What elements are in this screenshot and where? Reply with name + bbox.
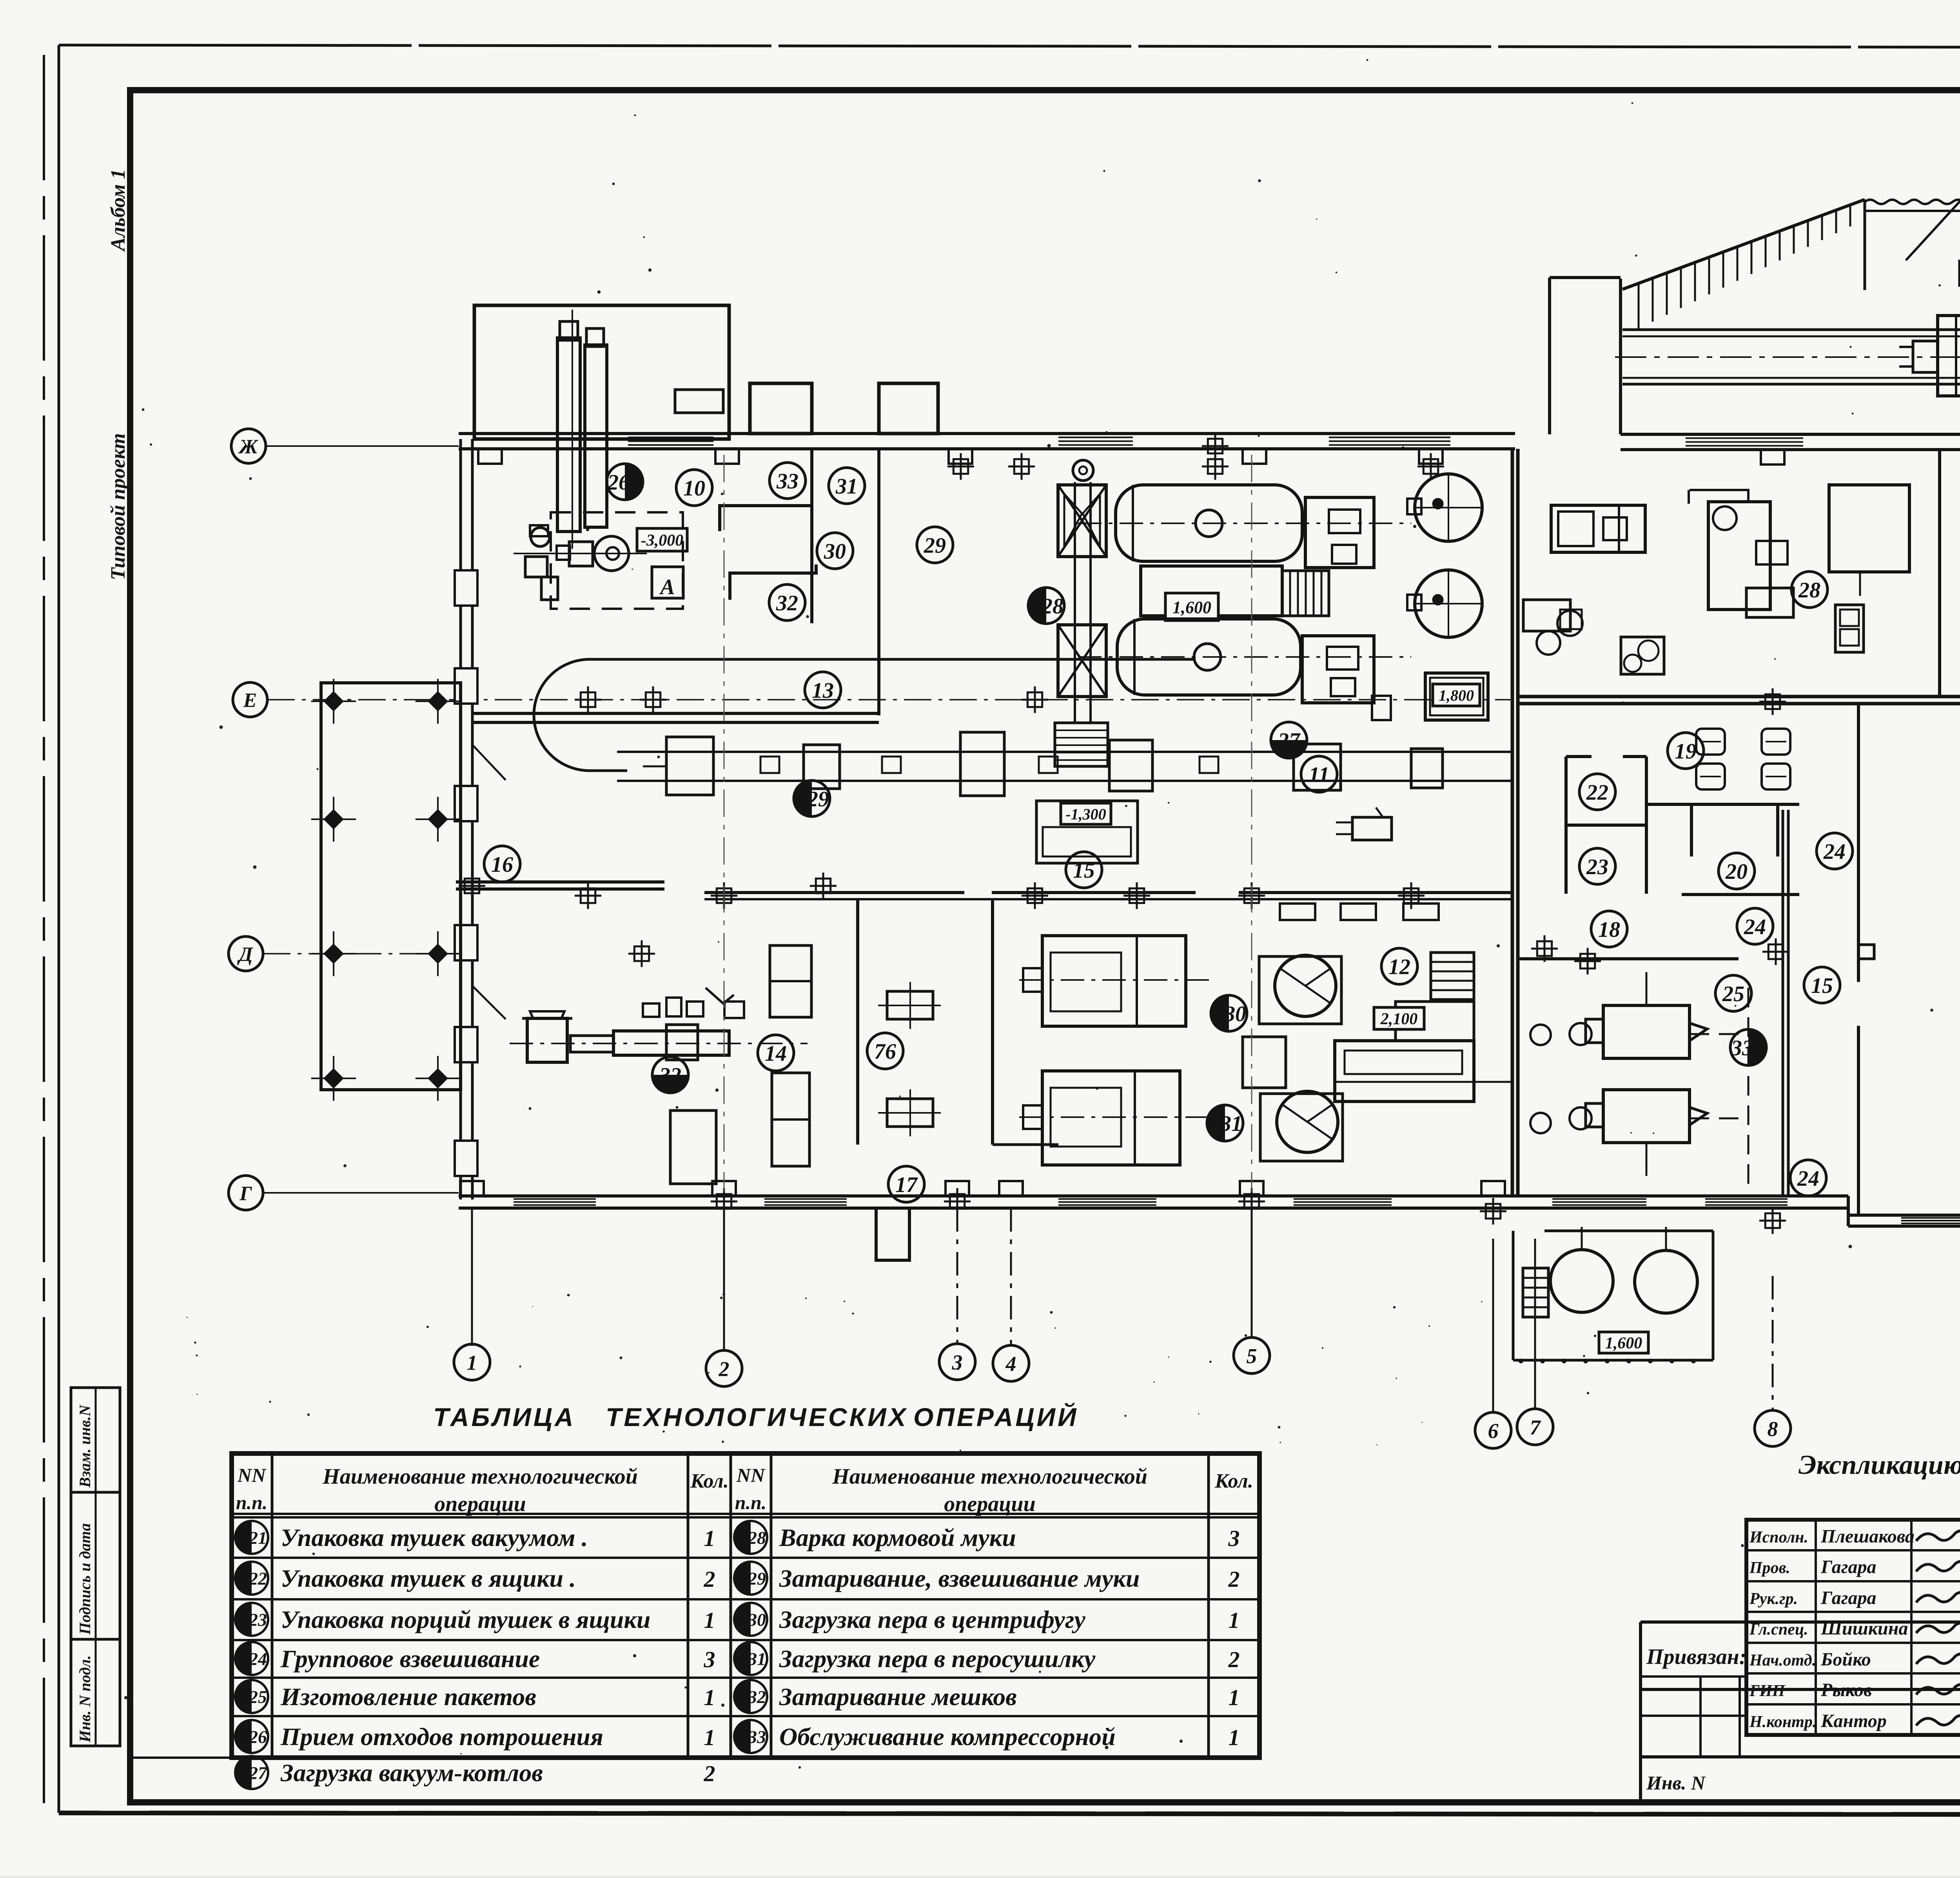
svg-text:Прием отходов потрошения: Прием отходов потрошения <box>280 1723 603 1751</box>
svg-text:16: 16 <box>491 853 513 877</box>
svg-text:14: 14 <box>765 1042 787 1066</box>
svg-text:Обслуживание компрессорной: Обслуживание компрессорной <box>779 1723 1116 1751</box>
svg-text:12: 12 <box>1388 955 1410 979</box>
small motors on line <box>760 757 779 773</box>
dashed equipment zone <box>551 512 683 609</box>
hopper rail car <box>1899 316 1960 396</box>
operations table grid <box>232 1453 1259 1758</box>
room/operation marker 22 <box>1579 774 1615 810</box>
svg-text:26: 26 <box>607 470 630 495</box>
svg-text:Упаковка тушек вакуумом .: Упаковка тушек вакуумом . <box>281 1524 588 1551</box>
svg-text:29: 29 <box>807 787 829 811</box>
svg-text:25: 25 <box>1722 982 1744 1006</box>
svg-text:1: 1 <box>704 1685 715 1710</box>
svg-text:Инв. N: Инв. N <box>1646 1772 1706 1794</box>
door notch on wall x4741 <box>1858 945 1874 959</box>
room/operation marker 30 <box>734 1603 767 1636</box>
svg-text:Затаривание, взвешивание муки: Затаривание, взвешивание муки <box>779 1564 1140 1592</box>
svg-text:33: 33 <box>748 1727 766 1747</box>
giblet chiller <box>1335 1002 1513 1101</box>
svg-text:3: 3 <box>1228 1526 1240 1551</box>
room/operation marker 18 <box>1591 911 1627 947</box>
svg-text:26: 26 <box>249 1727 267 1747</box>
svg-text:15: 15 <box>1073 858 1095 883</box>
axis line E <box>267 699 1513 700</box>
svg-text:Загрузка вакуум-котлов: Загрузка вакуум-котлов <box>280 1759 543 1787</box>
bottom wall of top-left rooms <box>472 712 879 715</box>
machine with label 1.800 <box>1425 673 1488 720</box>
svg-text:2: 2 <box>1228 1647 1240 1672</box>
room/operation marker 24 <box>235 1642 268 1675</box>
room/operation marker 8 <box>1755 1410 1791 1446</box>
weigher units room 25 <box>1570 972 1707 1058</box>
svg-text:Изготовление пакетов: Изготовление пакетов <box>280 1683 536 1711</box>
svg-text:Кол.: Кол. <box>690 1470 729 1492</box>
room/operation marker 30 <box>817 533 853 569</box>
svg-text:30: 30 <box>824 539 846 564</box>
svg-text:Е: Е <box>243 690 257 712</box>
central dividing wall (axis between halls) <box>1511 449 1514 1196</box>
svg-text:1,800: 1,800 <box>1439 686 1474 704</box>
room/operation marker 29 <box>734 1562 767 1595</box>
axis line G <box>263 1192 459 1194</box>
title block frame <box>1746 1520 1960 1735</box>
svg-text:Инв. N подл.: Инв. N подл. <box>76 1655 94 1743</box>
room/operation marker 33 <box>734 1720 767 1753</box>
level label 0,400 <box>1960 261 1960 285</box>
machine cluster room 10 <box>514 525 647 600</box>
svg-text:Н.контр.: Н.контр. <box>1749 1713 1817 1731</box>
svg-text:Подпись и дата: Подпись и дата <box>76 1523 94 1635</box>
svg-text:1,600: 1,600 <box>1172 598 1211 617</box>
room/operation marker 31 <box>829 468 865 504</box>
svg-text:28: 28 <box>748 1528 766 1548</box>
svg-text:1: 1 <box>467 1351 477 1374</box>
feather trough <box>1036 801 1138 863</box>
ladder room 12 <box>1431 953 1474 1000</box>
svg-text:NN: NN <box>736 1464 766 1486</box>
svg-text:22: 22 <box>1586 780 1608 805</box>
room 24/25 box <box>1518 957 1739 960</box>
table room 14 <box>670 1110 716 1184</box>
room/operation marker 19 <box>1668 733 1704 769</box>
level label -3,000 <box>637 528 687 551</box>
compressor ladder <box>1523 1268 1548 1317</box>
level label 1,600 <box>1599 1332 1648 1353</box>
room/operation marker 10 <box>676 470 712 506</box>
south wall step (right section, lower) <box>1847 1196 1850 1226</box>
room/operation marker 11 <box>1301 756 1337 792</box>
svg-text:1,600: 1,600 <box>1605 1334 1642 1352</box>
svg-text:Нач.отд.: Нач.отд. <box>1749 1651 1816 1669</box>
machines room 19 <box>1523 600 1583 655</box>
small machine room 19b <box>1621 637 1664 674</box>
svg-text:Альбом 1: Альбом 1 <box>107 169 129 252</box>
chiller drum 1 <box>1259 955 1341 1024</box>
svg-text:Пров.: Пров. <box>1749 1559 1790 1577</box>
wall at E level right section <box>1518 695 1960 699</box>
svg-text:1: 1 <box>704 1608 715 1633</box>
svg-text:13: 13 <box>812 679 834 703</box>
svg-text:Ж: Ж <box>238 436 258 458</box>
room/operation marker Ж <box>231 429 266 463</box>
axis line D <box>263 953 459 954</box>
svg-text:11: 11 <box>1309 763 1330 787</box>
tables room 12 <box>1280 904 1315 920</box>
svg-text:3: 3 <box>952 1350 963 1374</box>
svg-text:8: 8 <box>1768 1417 1778 1441</box>
svg-text:операции: операции <box>944 1492 1035 1516</box>
svg-text:28: 28 <box>1798 578 1820 602</box>
enclosure rivets <box>1519 1359 1523 1363</box>
level label 1,600 <box>1165 593 1218 621</box>
svg-text:24: 24 <box>1744 915 1766 939</box>
svg-text:-1,300: -1,300 <box>1065 805 1106 823</box>
room/operation marker 15 <box>1066 852 1102 888</box>
svg-text:25: 25 <box>249 1687 267 1707</box>
svg-text:23: 23 <box>1586 855 1608 879</box>
svg-text:22: 22 <box>249 1569 267 1589</box>
svg-text:Наименование технологической: Наименование технологической <box>832 1464 1147 1489</box>
room/operation marker 25 <box>235 1680 268 1713</box>
room/operation marker 2 <box>706 1350 742 1386</box>
svg-text:5: 5 <box>1247 1344 1257 1368</box>
svg-text:29: 29 <box>748 1569 766 1589</box>
room/operation marker 20 <box>1719 853 1755 889</box>
room/operation marker 24 <box>1737 908 1773 944</box>
slaughter-defeathering line <box>617 732 1512 796</box>
room/operation marker 16 <box>484 846 520 882</box>
leader line to platform <box>1906 158 1960 260</box>
svg-text:Типовой проект: Типовой проект <box>107 433 129 580</box>
room/operation marker 76 <box>867 1033 903 1069</box>
svg-text:32: 32 <box>776 591 798 615</box>
washer drum 2 <box>1019 1071 1215 1165</box>
svg-text:1: 1 <box>1229 1725 1240 1750</box>
cooker middle tank <box>1141 566 1282 616</box>
svg-text:31: 31 <box>748 1649 766 1669</box>
room/operation marker 28 <box>734 1521 767 1554</box>
svg-text:20: 20 <box>1725 860 1748 884</box>
svg-text:Г: Г <box>239 1183 252 1205</box>
svg-text:2: 2 <box>704 1566 715 1592</box>
room/operation marker 30 <box>1211 995 1247 1031</box>
room/operation marker 25 <box>1715 975 1751 1011</box>
L partition room 32 <box>730 564 816 600</box>
svg-text:23: 23 <box>249 1610 267 1630</box>
room/operation marker 24 <box>1817 833 1853 869</box>
wall Zh right building <box>1621 433 1960 436</box>
annex column markers <box>323 691 344 711</box>
room/operation marker 22 <box>235 1562 268 1595</box>
scalder tank <box>522 1011 572 1062</box>
room/operation marker Г <box>229 1176 263 1210</box>
svg-text:Загрузка пера в центрифугу: Загрузка пера в центрифугу <box>779 1606 1085 1633</box>
room/operation marker 29 <box>917 527 953 563</box>
room/operation marker 17 <box>888 1166 924 1202</box>
feather dryer towers <box>557 310 607 549</box>
rail track lines <box>1622 328 1960 331</box>
room/operation marker 33 <box>769 463 806 499</box>
small pump near tanks <box>1372 696 1391 720</box>
rooms 22/23 walls <box>1564 757 1568 894</box>
svg-text:27: 27 <box>1278 729 1301 753</box>
svg-text:Упаковка тушек в ящики .: Упаковка тушек в ящики . <box>281 1564 576 1592</box>
washer drum 1 <box>1019 936 1215 1026</box>
svg-text:NN: NN <box>237 1464 267 1486</box>
svg-text:ОПЕРАЦИЙ: ОПЕРАЦИЙ <box>913 1402 1078 1432</box>
svg-text:33: 33 <box>776 469 799 494</box>
room/operation marker 32 <box>734 1680 767 1713</box>
overhead conveyor loop <box>534 659 1196 771</box>
svg-text:Исполн.: Исполн. <box>1749 1528 1808 1546</box>
svg-text:29: 29 <box>924 533 946 558</box>
svg-text:21: 21 <box>249 1528 267 1548</box>
level label -1,300 <box>1061 803 1111 824</box>
svg-text:30: 30 <box>748 1610 766 1630</box>
svg-text:Варка кормовой муки: Варка кормовой муки <box>779 1524 1016 1551</box>
svg-text:76: 76 <box>874 1040 896 1064</box>
small circles room 25 <box>1530 1025 1551 1045</box>
L partition room 33 <box>720 506 812 531</box>
equipment pair room 14 lower <box>772 1073 809 1166</box>
svg-text:24: 24 <box>249 1649 267 1669</box>
top-left rooms partition vertical 2 <box>877 449 880 715</box>
room/operation marker Д <box>229 936 263 971</box>
svg-text:Групповое взвешивание: Групповое взвешивание <box>280 1645 540 1673</box>
interior wall room 28/26 <box>1938 450 1941 697</box>
partition wall x2188 <box>856 899 859 1145</box>
blood tank upper <box>1407 474 1482 541</box>
svg-text:2,100: 2,100 <box>1380 1010 1418 1028</box>
level label 1,800 <box>1433 684 1480 706</box>
room/operation marker 14 <box>758 1035 794 1071</box>
machine top room 28 area <box>1551 505 1645 552</box>
room/operation marker 15 <box>1804 967 1840 1003</box>
equipment pair room 14 upper <box>770 945 811 1017</box>
corridor to unloading platform <box>1548 278 1551 434</box>
svg-text:3: 3 <box>704 1647 715 1672</box>
compressor station enclosure <box>1513 1231 1713 1360</box>
svg-text:4: 4 <box>1005 1352 1016 1375</box>
svg-text:19: 19 <box>1675 739 1697 764</box>
room/operation marker 23 <box>235 1603 268 1636</box>
svg-text:Плешакова: Плешакова <box>1820 1526 1915 1547</box>
svg-text:-3,000: -3,000 <box>641 532 684 550</box>
svg-text:1: 1 <box>1229 1608 1240 1633</box>
left stub of title block <box>1641 1675 1746 1678</box>
svg-text:Гагара: Гагара <box>1820 1557 1877 1577</box>
room 20 walls <box>1646 803 1799 806</box>
svg-text:28: 28 <box>1041 594 1063 619</box>
small device room 28 <box>1835 605 1864 652</box>
room/operation marker 33 <box>1730 1029 1766 1065</box>
svg-text:п.п.: п.п. <box>735 1492 767 1513</box>
level label 2,100 <box>1374 1007 1424 1029</box>
interior wall above rooms 14-16 (corridor) <box>456 880 664 884</box>
svg-text:п.п.: п.п. <box>236 1492 268 1513</box>
cooker stairs <box>1282 571 1329 616</box>
section mark A box <box>652 567 683 598</box>
svg-text:31: 31 <box>1220 1112 1242 1136</box>
room/operation marker 32 <box>769 584 805 621</box>
room/operation marker 4 <box>993 1345 1029 1381</box>
bottom axis leaders and circles <box>471 1208 473 1344</box>
square between chillers <box>1243 1037 1286 1088</box>
svg-text:10: 10 <box>683 476 705 501</box>
vent room 2 above Zh <box>879 383 938 434</box>
top-left rooms partition vertical 1 <box>810 449 813 623</box>
svg-text:Рук.гр.: Рук.гр. <box>1749 1590 1798 1608</box>
room/operation marker 26 <box>607 464 643 500</box>
room/operation marker 7 <box>1517 1409 1553 1445</box>
blood tank lower <box>1407 570 1482 637</box>
svg-text:30: 30 <box>1224 1002 1246 1026</box>
svg-text:6: 6 <box>1488 1419 1499 1443</box>
svg-text:2: 2 <box>1228 1566 1240 1592</box>
svg-text:Затаривание мешков: Затаривание мешков <box>779 1683 1017 1711</box>
column axis verticals <box>724 455 725 1192</box>
small box inside top-left room <box>675 390 723 413</box>
room/operation marker 23 <box>1579 848 1615 884</box>
door opening west wall <box>472 745 506 780</box>
svg-text:31: 31 <box>835 474 858 499</box>
room/operation marker 13 <box>805 672 841 708</box>
corridor wall x4741 <box>1857 704 1860 982</box>
svg-text:2: 2 <box>719 1357 730 1381</box>
svg-text:Упаковка порций тушек в ящики: Упаковка порций тушек в ящики <box>281 1606 650 1633</box>
room above axis Zh (top-left block) <box>474 305 729 439</box>
vacuum cooker 1 <box>1078 485 1411 568</box>
svg-text:24: 24 <box>1797 1167 1819 1191</box>
svg-text:32: 32 <box>659 1063 681 1088</box>
west wall of main building <box>459 439 462 1199</box>
column markers <box>575 686 601 713</box>
room/operation marker 6 <box>1475 1412 1511 1448</box>
room/operation marker 27 <box>235 1756 268 1789</box>
svg-text:18: 18 <box>1598 918 1620 942</box>
vacuum cooker 2 <box>1078 619 1411 703</box>
svg-text:Наименование технологической: Наименование технологической <box>322 1464 638 1489</box>
svg-text:Гагара: Гагара <box>1820 1588 1877 1608</box>
pump pair A room 19 <box>1696 729 1725 755</box>
feather centrifuge lower <box>1058 625 1106 697</box>
room/operation marker 29 <box>794 780 830 817</box>
svg-text:Кол.: Кол. <box>1214 1470 1253 1492</box>
svg-text:27: 27 <box>249 1763 268 1783</box>
room/operation marker 21 <box>235 1521 268 1554</box>
room/operation marker 28 <box>1791 572 1828 608</box>
svg-text:1: 1 <box>704 1526 715 1551</box>
svg-text:1: 1 <box>704 1725 715 1750</box>
dashed piping room 25 <box>1748 988 1749 1192</box>
corrugated platform edge <box>1865 200 1960 204</box>
receiver tank 1 <box>1550 1250 1613 1312</box>
feather press hatch block <box>1055 723 1108 766</box>
partition wall x2532 <box>991 899 994 1145</box>
small machine room 11 <box>1352 817 1392 840</box>
svg-text:ТАБЛИЦА: ТАБЛИЦА <box>433 1403 576 1432</box>
vent room 1 above Zh <box>750 383 812 434</box>
svg-text:Экспликацию помещений в осях: Экспликацию помещений в осях 1÷10 смотри… <box>1798 1450 1960 1480</box>
machines right of 19 <box>1746 541 1793 617</box>
room/operation marker 1 <box>454 1344 490 1380</box>
left annex between axes E and D <box>321 683 461 1090</box>
room/operation marker 12 <box>1381 948 1417 984</box>
plucking machine line <box>510 1025 808 1060</box>
svg-text:32: 32 <box>748 1687 766 1707</box>
cross machines room 76 upper <box>878 982 941 1029</box>
tank room 28 <box>1689 490 1770 610</box>
svg-text:Взам. инв.N: Взам. инв.N <box>76 1404 94 1488</box>
svg-text:1: 1 <box>1229 1685 1240 1710</box>
room/operation marker 24 <box>1790 1160 1826 1196</box>
chiller drum 2 <box>1260 1091 1343 1161</box>
svg-text:15: 15 <box>1811 974 1833 998</box>
box room 28 <box>1829 485 1909 572</box>
axis line Zh <box>266 445 459 447</box>
svg-text:Бойко: Бойко <box>1820 1649 1871 1670</box>
south entrance porch <box>876 1208 909 1260</box>
svg-text:17: 17 <box>895 1173 918 1197</box>
svg-text:операции: операции <box>434 1492 526 1516</box>
outer sheet border <box>43 55 45 1813</box>
room/operation marker 26 <box>235 1720 268 1753</box>
room/operation marker 32 <box>652 1057 688 1093</box>
svg-text:Загрузка пера в перосушилку: Загрузка пера в перосушилку <box>779 1645 1096 1673</box>
feather centrifuge upper <box>1058 485 1106 557</box>
svg-text:Привязан:: Привязан: <box>1646 1645 1746 1669</box>
room/operation marker 31 <box>734 1642 767 1675</box>
corridor wall x4555 <box>1782 810 1784 1196</box>
svg-text:2: 2 <box>704 1761 715 1786</box>
left margin stamp boxes <box>71 1388 120 1746</box>
wall Zh (north wall, main hall) <box>459 432 1515 435</box>
cross machines room 76 lower <box>878 1089 941 1136</box>
svg-text:Д: Д <box>237 944 253 966</box>
svg-text:7: 7 <box>1530 1415 1541 1439</box>
svg-text:А: А <box>659 575 675 599</box>
centrifuge shaft <box>1074 482 1076 723</box>
svg-text:24: 24 <box>1823 840 1846 864</box>
room/operation marker 3 <box>939 1344 975 1380</box>
room/operation marker Е <box>233 682 267 717</box>
wall G (south wall, main hall) <box>459 1194 1848 1198</box>
room/operation marker 5 <box>1234 1337 1270 1374</box>
room/operation marker 31 <box>1207 1105 1243 1141</box>
room/operation marker 28 <box>1028 588 1064 624</box>
receiver tank 2 <box>1635 1250 1697 1313</box>
svg-text:ТЕХНОЛОГИЧЕСКИХ: ТЕХНОЛОГИЧЕСКИХ <box>606 1403 908 1432</box>
svg-text:33: 33 <box>1731 1036 1753 1060</box>
motor cluster above line <box>643 988 744 1018</box>
svg-text:Кантор: Кантор <box>1820 1711 1887 1731</box>
room/operation marker 27 <box>1271 722 1307 758</box>
platform ramp (hatched slope) <box>1622 200 1865 289</box>
